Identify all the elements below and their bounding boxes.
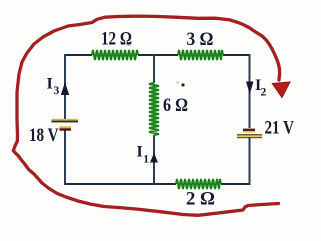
wire bottom right segment — [221, 183, 251, 185]
svg-text:1: 1 — [143, 154, 149, 166]
wire middle upper — [153, 54, 155, 83]
current arrow I1 (up) — [150, 153, 158, 163]
svg-text:6 Ω: 6 Ω — [163, 95, 188, 116]
resistor R2 3 ohm zigzag — [178, 50, 223, 60]
wire bottom left segment — [65, 183, 176, 185]
wire left lower — [64, 130, 66, 185]
resistor R4 2 ohm zigzag — [176, 179, 221, 189]
svg-text:18 V: 18 V — [29, 125, 59, 146]
wire left upper — [64, 54, 66, 119]
svg-text:21 V: 21 V — [265, 118, 295, 139]
wire right upper — [249, 54, 251, 128]
svg-text:I: I — [137, 144, 143, 161]
resistor R1 12 ohm zigzag — [92, 50, 138, 60]
wire top middle segment — [138, 54, 178, 56]
battery B1 18V short plate — [60, 126, 72, 130]
wire top right segment — [223, 54, 251, 56]
speck artifact — [181, 83, 184, 86]
battery B1 18V long plate — [52, 119, 79, 123]
current arrow I2 (down) — [246, 82, 254, 95]
svg-text:I: I — [47, 76, 53, 93]
wire right lower — [249, 137, 251, 185]
battery B2 21V short plate — [243, 129, 255, 133]
svg-text:3 Ω: 3 Ω — [187, 29, 214, 50]
resistor R3 6 ohm zigzag (vertical) — [149, 83, 159, 135]
svg-text:2 Ω: 2 Ω — [186, 189, 215, 210]
svg-text:3: 3 — [54, 85, 60, 97]
svg-text:12 Ω: 12 Ω — [101, 29, 132, 50]
red hand-drawn loop — [13, 16, 279, 215]
red loop arrowhead — [272, 82, 290, 98]
battery B2 21V long plate — [237, 134, 262, 138]
faint mark under ohm — [128, 44, 133, 45]
current arrow I3 (up) — [61, 82, 69, 95]
faint speck — [176, 81, 179, 84]
svg-text:2: 2 — [261, 87, 267, 99]
wire middle lower — [153, 135, 155, 185]
wire top left segment — [65, 54, 92, 56]
